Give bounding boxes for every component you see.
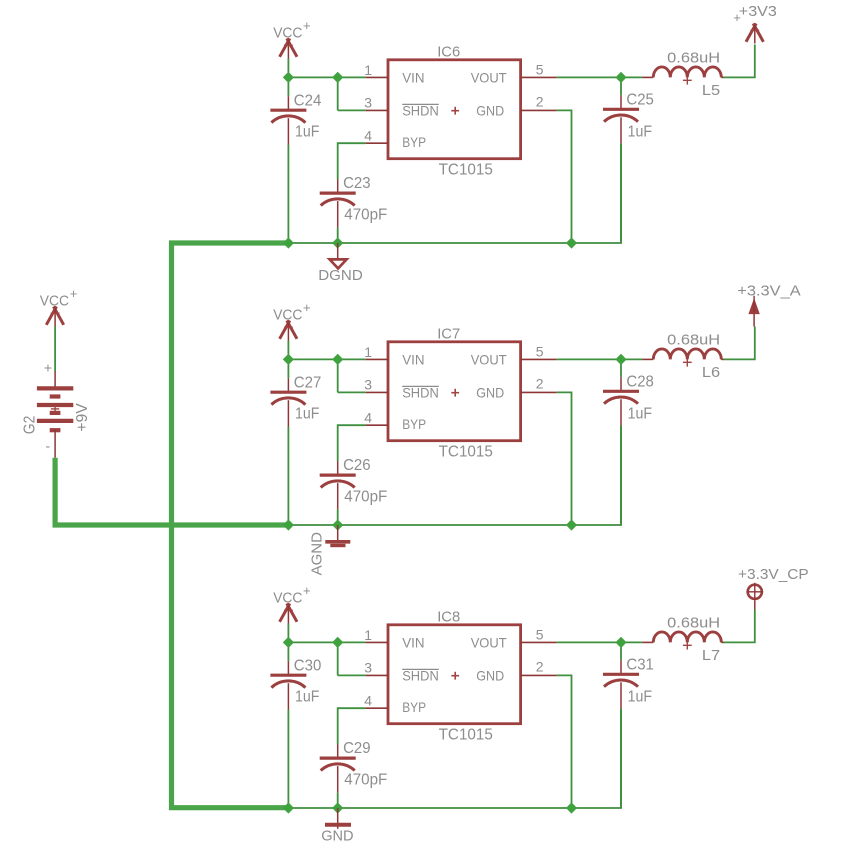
junction VIN/SHDN — [332, 354, 343, 365]
svg-text:1uF: 1uF — [628, 405, 653, 422]
wire VCC to VIN junction — [287, 59, 289, 78]
label VCC (battery) — [40, 286, 78, 310]
capacitor C25 — [603, 95, 639, 143]
wire SHDN tie vertical — [337, 359, 339, 392]
svg-text:1uF: 1uF — [628, 688, 653, 705]
wire BYP net — [338, 143, 366, 179]
svg-text:IC8: IC8 — [437, 609, 460, 626]
svg-text:VCC: VCC — [273, 25, 302, 42]
svg-text:1: 1 — [364, 344, 372, 360]
wire ground rail — [288, 709, 621, 808]
battery G2 +9V — [37, 371, 73, 458]
wire GND pin net — [557, 110, 572, 243]
wire C25 top — [620, 77, 622, 95]
wire SHDN horizontal — [338, 391, 366, 393]
svg-text:2: 2 — [536, 659, 544, 675]
svg-text:1uF: 1uF — [295, 124, 320, 141]
svg-text:C25: C25 — [626, 91, 654, 108]
svg-text:+3V3: +3V3 — [739, 3, 777, 20]
junction rail/bypass cap — [332, 802, 343, 813]
label VCC — [273, 583, 310, 607]
svg-text:C28: C28 — [626, 373, 654, 390]
pin name SHDN (with overline) — [402, 667, 439, 683]
svg-text:AGND: AGND — [309, 532, 326, 576]
junction rail/input cap — [283, 519, 294, 530]
op-amp/regulator IC7 TC1015 — [366, 342, 557, 441]
wire SHDN horizontal — [338, 109, 366, 111]
junction VOUT/cap — [615, 354, 626, 365]
wire GND pin net — [557, 392, 572, 525]
wire C25 bottom — [620, 144, 622, 243]
svg-text:0.68uH: 0.68uH — [667, 332, 720, 349]
svg-text:VIN: VIN — [402, 352, 424, 368]
supply VCC (IC7 input) — [280, 321, 297, 341]
junction VIN/SHDN — [332, 72, 343, 83]
junction rail/input cap — [283, 802, 294, 813]
wire SHDN tie vertical — [337, 77, 339, 110]
svg-text:1uF: 1uF — [295, 689, 320, 706]
wire inductor to supply — [724, 45, 755, 78]
wire C28 top — [620, 359, 622, 377]
svg-text:C24: C24 — [294, 92, 322, 109]
svg-text:GND: GND — [321, 827, 354, 844]
svg-text:VOUT: VOUT — [471, 352, 507, 368]
wire ground rail — [288, 426, 621, 525]
wire VIN net horizontal — [288, 358, 365, 360]
label VCC — [273, 18, 310, 42]
svg-text:0.68uH: 0.68uH — [667, 50, 720, 67]
capacitor C31 — [603, 660, 639, 708]
wire thick battery negative to rail2 — [55, 458, 288, 525]
wire C27 top — [287, 359, 289, 378]
svg-text:BYP: BYP — [402, 699, 426, 715]
svg-text:+: + — [733, 10, 741, 25]
capacitor C30 — [270, 661, 306, 709]
capacitor C26 — [320, 461, 356, 509]
svg-text:IC7: IC7 — [437, 326, 460, 343]
svg-text:4: 4 — [364, 409, 372, 425]
capacitor C27 — [270, 378, 306, 426]
junction VIN/VCC — [283, 354, 294, 365]
svg-text:1uF: 1uF — [295, 406, 320, 423]
wire C31 bottom — [620, 709, 622, 808]
junction rail/GND pin — [566, 802, 577, 813]
capacitor C24 — [270, 96, 306, 144]
supply VCC (battery positive) — [46, 307, 63, 327]
wire C26 bottom — [337, 509, 339, 525]
wire BYP net — [338, 708, 366, 744]
wire thick ground bus (rail1 - left vertical - rail3) — [172, 243, 289, 808]
wire VIN net horizontal — [288, 76, 365, 78]
svg-text:3: 3 — [364, 94, 372, 110]
svg-text:5: 5 — [536, 61, 544, 77]
wire C29 bottom — [337, 792, 339, 808]
junction rail/bypass cap — [332, 237, 343, 248]
junction rail/GND pin — [566, 237, 577, 248]
wire inductor to supply — [724, 610, 755, 643]
ground GND — [325, 808, 351, 829]
svg-text:0.68uH: 0.68uH — [667, 615, 720, 632]
wire VIN net horizontal — [288, 641, 365, 643]
wire to inductor — [621, 358, 642, 360]
svg-text:L5: L5 — [702, 82, 720, 99]
supply VCC (IC8 input) — [280, 604, 297, 624]
capacitor C28 — [603, 377, 639, 425]
svg-text:+: + — [303, 300, 311, 315]
svg-text:VCC: VCC — [273, 590, 302, 607]
svg-text:5: 5 — [536, 343, 544, 359]
wire C28 bottom — [620, 426, 622, 525]
svg-text:BYP: BYP — [402, 134, 426, 150]
wire SHDN horizontal — [338, 674, 366, 676]
svg-text:TC1015: TC1015 — [439, 443, 493, 460]
junction VOUT/cap — [615, 637, 626, 648]
svg-text:470pF: 470pF — [344, 206, 387, 223]
label VCC — [273, 300, 310, 324]
wire C30 bottom — [287, 710, 289, 809]
svg-text:C30: C30 — [294, 657, 322, 674]
svg-text:+: + — [44, 360, 52, 376]
svg-text:3: 3 — [364, 659, 372, 675]
junction VIN/VCC — [283, 72, 294, 83]
svg-text:BYP: BYP — [402, 416, 426, 432]
wire C27 bottom — [287, 427, 289, 526]
svg-text:-: - — [45, 438, 50, 454]
wire inductor to supply — [724, 327, 755, 360]
svg-text:+3.3V_A: +3.3V_A — [737, 283, 800, 300]
wire C30 top — [287, 642, 289, 661]
ground AGND — [325, 525, 350, 546]
capacitor C29 — [320, 744, 356, 792]
svg-text:2: 2 — [536, 94, 544, 110]
label +3V3 — [733, 3, 777, 25]
svg-text:+9V: +9V — [74, 403, 91, 432]
svg-text:L7: L7 — [702, 647, 720, 664]
svg-text:VIN: VIN — [402, 635, 424, 651]
junction VIN/VCC — [283, 637, 294, 648]
supply +3.3V_A arrow — [749, 296, 759, 327]
svg-text:VIN: VIN — [402, 70, 424, 86]
svg-text:4: 4 — [364, 692, 372, 708]
svg-text:470pF: 470pF — [344, 771, 387, 788]
svg-text:VOUT: VOUT — [471, 70, 507, 86]
pin name SHDN (with overline) — [402, 384, 439, 400]
inductor L6 0.68uH — [642, 349, 723, 367]
supply +3.3V_CP circle — [747, 583, 763, 610]
svg-text:IC6: IC6 — [437, 44, 460, 61]
wire VOUT net — [557, 76, 621, 78]
supply VCC (IC6 input) — [280, 39, 297, 59]
svg-text:5: 5 — [536, 626, 544, 642]
junction rail/input cap — [283, 237, 294, 248]
svg-text:1: 1 — [364, 62, 372, 78]
svg-text:3: 3 — [364, 376, 372, 392]
svg-text:470pF: 470pF — [344, 488, 387, 505]
svg-text:C29: C29 — [343, 740, 371, 757]
svg-text:+: + — [303, 18, 311, 33]
op-amp/regulator IC6 TC1015 — [366, 60, 557, 159]
pin name SHDN (with overline) — [402, 102, 439, 118]
wire ground rail — [288, 144, 621, 243]
wire GND pin net — [557, 675, 572, 808]
svg-text:GND: GND — [476, 384, 504, 400]
svg-text:VOUT: VOUT — [471, 635, 507, 651]
svg-text:2: 2 — [536, 376, 544, 392]
svg-text:C27: C27 — [294, 374, 322, 391]
svg-text:C26: C26 — [343, 457, 371, 474]
wire VOUT net — [557, 641, 621, 643]
op-amp/regulator IC8 TC1015 — [366, 625, 557, 724]
svg-text:TC1015: TC1015 — [439, 161, 493, 178]
svg-text:GND: GND — [476, 667, 504, 683]
wire VCC to VIN junction — [287, 624, 289, 643]
svg-text:1: 1 — [364, 627, 372, 643]
wire VCC to VIN junction — [287, 341, 289, 360]
svg-text:+: + — [303, 583, 311, 598]
svg-text:4: 4 — [364, 127, 372, 143]
wire VOUT net — [557, 358, 621, 360]
svg-text:C23: C23 — [343, 175, 371, 192]
wire VCC arrow to battery — [54, 327, 56, 372]
wire SHDN tie vertical — [337, 642, 339, 675]
wire to inductor — [621, 641, 642, 643]
wire C24 top — [287, 77, 289, 96]
capacitor C23 — [320, 179, 356, 227]
ground DGND — [330, 243, 347, 268]
junction VIN/SHDN — [332, 637, 343, 648]
svg-text:TC1015: TC1015 — [439, 726, 493, 743]
svg-text:+: + — [70, 286, 78, 301]
wire to inductor — [621, 76, 642, 78]
junction rail/GND pin — [566, 519, 577, 530]
wire C31 top — [620, 642, 622, 660]
svg-text:+3.3V_CP: +3.3V_CP — [738, 566, 809, 583]
svg-text:C31: C31 — [626, 656, 654, 673]
svg-text:VCC: VCC — [40, 293, 69, 310]
svg-text:DGND: DGND — [318, 267, 363, 284]
wire C23 bottom — [337, 227, 339, 243]
svg-text:VCC: VCC — [273, 307, 302, 324]
inductor L5 0.68uH — [642, 67, 723, 85]
wire BYP net — [338, 425, 366, 461]
inductor L7 0.68uH — [642, 632, 723, 650]
svg-text:L6: L6 — [702, 364, 720, 381]
svg-text:G2: G2 — [21, 416, 38, 435]
wire C24 bottom — [287, 145, 289, 244]
svg-text:1uF: 1uF — [628, 123, 653, 140]
junction rail/bypass cap — [332, 519, 343, 530]
junction VOUT/cap — [615, 72, 626, 83]
svg-text:GND: GND — [476, 102, 504, 118]
supply +3V3 — [746, 24, 763, 44]
